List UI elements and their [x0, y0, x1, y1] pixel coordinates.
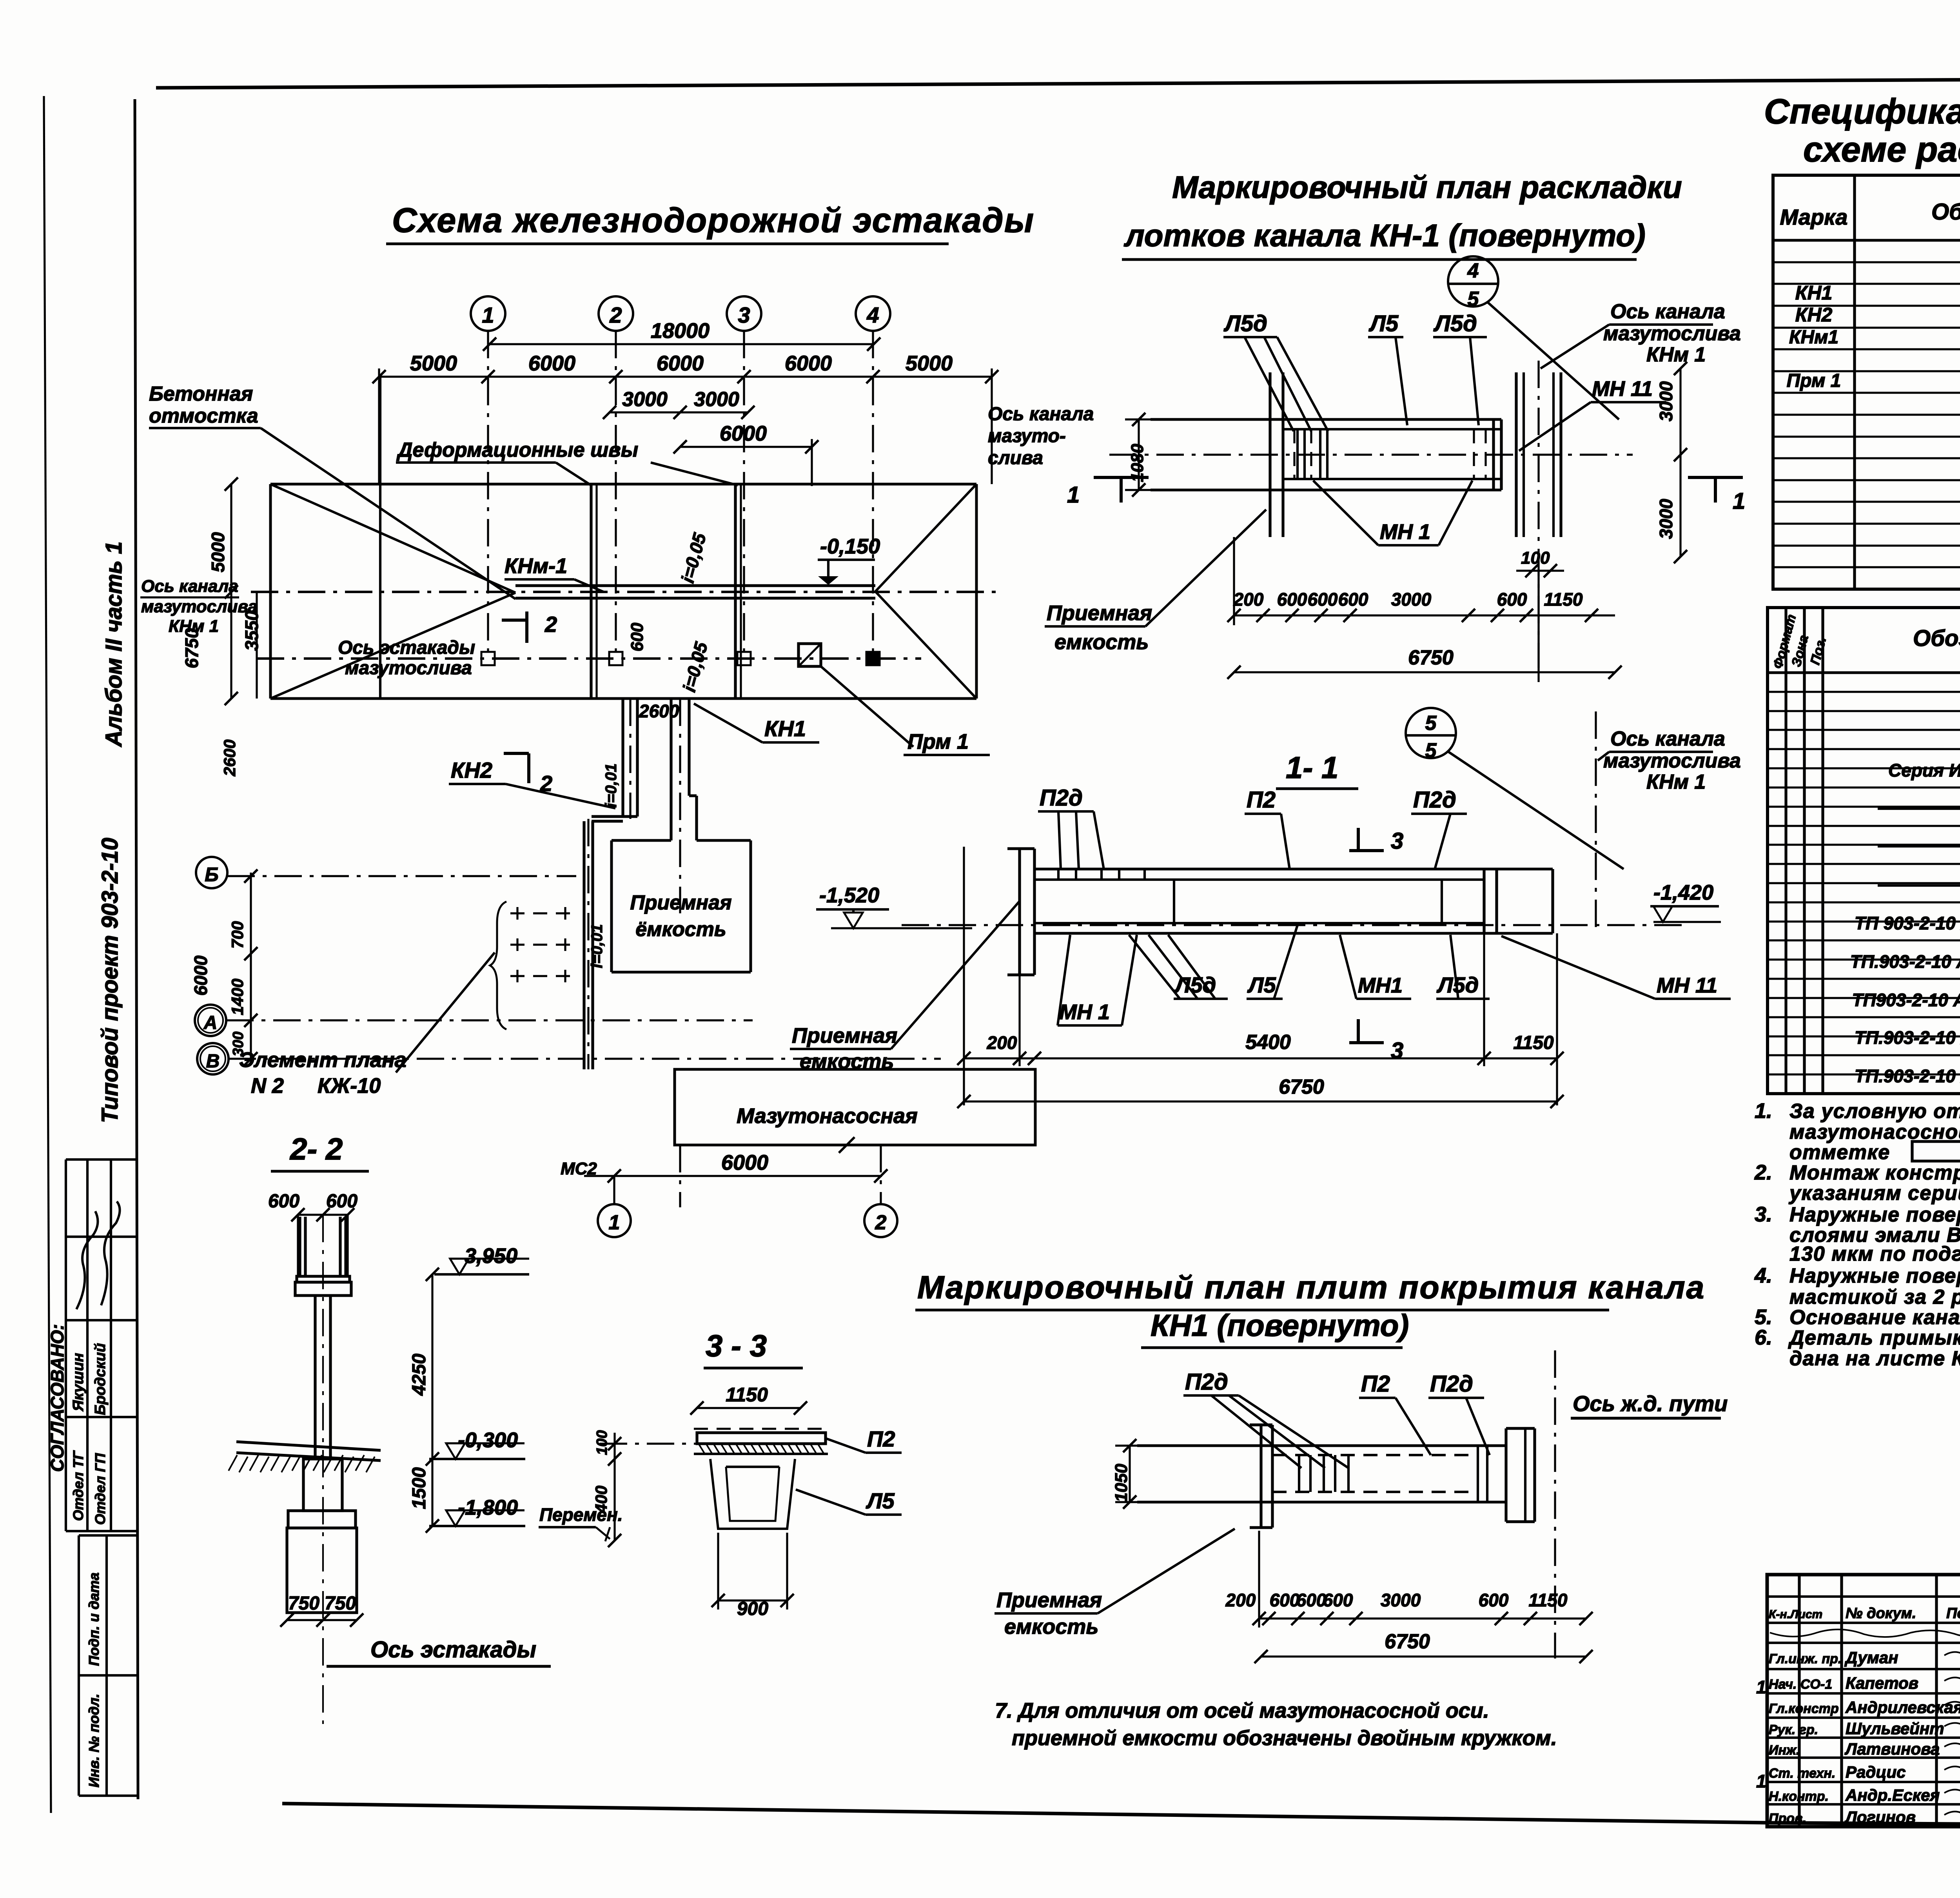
apron diagonals right [875, 484, 976, 592]
horizontal canal axis [1109, 454, 1633, 455]
title block left columns [1798, 1575, 1800, 1827]
svg-text:600: 600 [1479, 1590, 1509, 1610]
svg-text:№ докум.: № докум. [1846, 1605, 1916, 1622]
grid axis lines [487, 331, 489, 659]
svg-text:1150: 1150 [726, 1384, 768, 1406]
section mark 3 upper [1357, 828, 1360, 851]
left vertical dim line [250, 873, 252, 1059]
datum axis 1-1 [902, 924, 1686, 926]
svg-text:мазуто-: мазуто- [988, 426, 1066, 446]
svg-text:3: 3 [738, 303, 750, 327]
svg-text:мазутослива: мазутослива [141, 597, 258, 616]
svg-text:1080: 1080 [1128, 444, 1147, 482]
svg-text:П2: П2 [1247, 787, 1276, 813]
svg-text:Схема железнодорожной эстакады: Схема железнодорожной эстакады [392, 201, 1034, 240]
svg-text:Отдел ТГ: Отдел ТГ [70, 1450, 86, 1521]
svg-text:3000: 3000 [1391, 589, 1432, 610]
svg-text:3,950: 3,950 [465, 1244, 517, 1268]
2-2 footing [288, 1511, 356, 1528]
svg-text:емкость: емкость [1054, 630, 1149, 654]
svg-text:Марка: Марка [1780, 205, 1848, 229]
section mark 3 lower [1357, 1019, 1360, 1043]
svg-text:5400: 5400 [1245, 1031, 1291, 1054]
grid circle 1 lower [598, 1204, 631, 1237]
svg-text:КНм-1: КНм-1 [505, 554, 567, 578]
svg-text:Приемная: Приемная [996, 1588, 1102, 1612]
svg-text:-1,420: -1,420 [1653, 881, 1713, 904]
svg-text:Типовой проект 903-2-10: Типовой проект 903-2-10 [97, 838, 123, 1123]
svg-text:Маркировочный план раскладки: Маркировочный план раскладки [1172, 170, 1682, 205]
svg-text:Подп.: Подп. [1946, 1605, 1960, 1622]
svg-text:5: 5 [1425, 739, 1437, 762]
title block outline [1767, 1575, 1960, 1827]
svg-text:Обозначение: Обозначение [1913, 626, 1960, 651]
svg-text:ёмкость: ёмкость [635, 918, 726, 941]
svg-text:В: В [206, 1051, 220, 1072]
svg-text:Ось эстакады: Ось эстакады [370, 1637, 536, 1662]
plate joints on top left [1057, 869, 1060, 880]
svg-text:мазутослива: мазутослива [1603, 322, 1741, 345]
svg-text:3000: 3000 [1656, 499, 1676, 539]
sidebar lower table [79, 1534, 137, 1537]
svg-text:Подп. и дата: Подп. и дата [86, 1573, 102, 1666]
svg-text:КНм 1: КНм 1 [1646, 771, 1706, 793]
svg-text:200: 200 [987, 1032, 1017, 1053]
svg-text:Пров.: Пров. [1769, 1811, 1806, 1826]
svg-text:Альбом II часть 1: Альбом II часть 1 [101, 541, 127, 748]
svg-text:2: 2 [875, 1211, 887, 1234]
svg-text:600: 600 [1323, 1590, 1353, 1610]
svg-text:130 мкм по подгр. II допол: 130 мкм по подгр. II дополн. СНиП II- 28… [1789, 1243, 1960, 1265]
svg-text:5000: 5000 [410, 352, 457, 375]
svg-text:6750: 6750 [1279, 1076, 1324, 1098]
svg-text:ТП903-2-10 Ал.II ч.2 КЖИ-МН1: ТП903-2-10 Ал.II ч.2 КЖИ-МН13 [1852, 990, 1960, 1010]
svg-text:600: 600 [1338, 589, 1368, 610]
svg-text:2600: 2600 [220, 740, 239, 777]
svg-text:-0,150: -0,150 [820, 535, 880, 558]
svg-text:отметке: отметке [1789, 1141, 1890, 1164]
svg-text:Деталь примыкания канала КН: Деталь примыкания канала КН1 к каналам м… [1788, 1326, 1960, 1349]
svg-text:МС2: МС2 [561, 1159, 597, 1178]
svg-text:мазутослива: мазутослива [1603, 749, 1741, 772]
svg-text:Латвинова: Латвинова [1844, 1740, 1940, 1758]
svg-text:600: 600 [628, 622, 647, 651]
svg-text:П2д: П2д [1040, 785, 1083, 811]
svg-text:4.: 4. [1754, 1264, 1772, 1287]
svg-text:КНм1: КНм1 [1789, 327, 1838, 348]
svg-text:СОГЛАСОВАНО:: СОГЛАСОВАНО: [47, 1324, 67, 1472]
svg-text:дана на листе КЖ-5.: дана на листе КЖ-5. [1789, 1347, 1960, 1370]
grid circle 1 [471, 296, 505, 331]
svg-text:Наружные поверхности закладн: Наружные поверхности закладных деталей п… [1789, 1203, 1960, 1226]
dims below 1-1 [964, 1057, 1557, 1059]
svg-text:лотков канала КН-1 (повернуто): лотков канала КН-1 (повернуто) [1123, 218, 1646, 253]
svg-text:КН1: КН1 [764, 716, 806, 741]
svg-text:6.: 6. [1755, 1326, 1772, 1349]
svg-text:Элемент плана: Элемент плана [239, 1048, 407, 1072]
svg-text:1.: 1. [1755, 1099, 1772, 1123]
svg-text:Гл.инж. пр.: Гл.инж. пр. [1769, 1651, 1842, 1666]
svg-text:указаниям серии ИС-01-04: указаниям серии ИС-01-04 в.1 [1788, 1182, 1960, 1205]
callout circle 5/5 [1406, 708, 1456, 758]
svg-text:МН1: МН1 [1358, 974, 1403, 997]
svg-text:Спецификация элементов к ма: Спецификация элементов к маркировочной [1764, 92, 1960, 131]
svg-text:750: 750 [288, 1593, 319, 1614]
deformation joint lines [590, 484, 592, 699]
axis KNm1 vertical near 1-1 [1595, 711, 1597, 931]
svg-text:3000: 3000 [1381, 1590, 1421, 1610]
svg-text:П2: П2 [1361, 1371, 1390, 1397]
svg-text:Л5: Л5 [866, 1488, 895, 1513]
svg-text:750: 750 [325, 1593, 356, 1614]
right end wall 1-1 [1483, 869, 1485, 933]
svg-text:Наружные поверхности стен кан: Наружные поверхности стен канала покрыть… [1789, 1265, 1960, 1287]
svg-text:-1,520: -1,520 [819, 884, 879, 907]
svg-text:Инж.: Инж. [1769, 1743, 1800, 1758]
svg-text:Ось канала: Ось канала [1610, 728, 1725, 750]
trestle slab outline [270, 483, 976, 486]
svg-text:Ось канала: Ось канала [141, 577, 238, 596]
canal KN1 vertical [670, 699, 672, 840]
svg-text:i=0,01: i=0,01 [588, 924, 606, 968]
svg-text:КН2: КН2 [451, 758, 492, 782]
svg-text:КЖ-10: КЖ-10 [318, 1074, 381, 1098]
svg-text:П2д: П2д [1185, 1369, 1228, 1395]
svg-text:МН 11: МН 11 [1592, 377, 1653, 401]
svg-text:Прм 1: Прм 1 [1787, 370, 1841, 391]
svg-text:5.: 5. [1755, 1305, 1772, 1329]
svg-text:Приемная: Приемная [630, 891, 731, 914]
svg-text:6750: 6750 [1408, 646, 1454, 669]
svg-text:200: 200 [1225, 1590, 1256, 1610]
svg-text:100: 100 [594, 1430, 610, 1455]
svg-text:-1,800: -1,800 [458, 1496, 518, 1519]
crossing canal KNm1 block [1515, 372, 1517, 537]
svg-text:МН 1: МН 1 [1380, 520, 1430, 544]
right vertical dim 3000/3000 [1679, 368, 1681, 557]
3-3 cover plate [697, 1433, 826, 1444]
svg-text:отмостка: отмостка [149, 405, 258, 427]
svg-text:200: 200 [1233, 589, 1264, 610]
sheet edge line [44, 96, 51, 1813]
trough plan outline [1151, 418, 1501, 421]
plate joint lines [1296, 429, 1299, 479]
svg-text:3: 3 [1391, 1038, 1403, 1063]
svg-text:6000: 6000 [785, 352, 832, 375]
svg-text:П2д: П2д [1430, 1371, 1473, 1397]
svg-text:Ст. техн.: Ст. техн. [1769, 1766, 1835, 1781]
svg-text:600: 600 [1277, 589, 1307, 610]
svg-text:Серия ИС-01-04 Вып.2: Серия ИС-01-04 Вып.2 [1888, 760, 1960, 780]
svg-text:КНм 1: КНм 1 [1646, 343, 1706, 366]
dim 18000 [490, 343, 874, 345]
svg-text:2- 2: 2- 2 [289, 1132, 343, 1166]
svg-text:Обозначение: Обозначение [1931, 199, 1960, 225]
svg-text:-0,300: -0,300 [458, 1428, 518, 1452]
svg-text:900: 900 [737, 1599, 768, 1619]
svg-text:Капетов: Капетов [1846, 1674, 1918, 1692]
svg-text:700: 700 [228, 921, 247, 949]
sidebar signatures [76, 1211, 98, 1309]
svg-text:емкость: емкость [1004, 1615, 1098, 1639]
svg-text:6000: 6000 [720, 422, 767, 445]
svg-text:2: 2 [609, 303, 622, 327]
svg-text:600: 600 [268, 1191, 299, 1212]
svg-text:КН1: КН1 [1795, 282, 1833, 304]
svg-text:6000: 6000 [657, 352, 704, 375]
svg-text:Андр.Ескея: Андр.Ескея [1845, 1786, 1940, 1804]
svg-text:2600: 2600 [639, 701, 679, 721]
svg-text:1150: 1150 [1513, 1032, 1554, 1053]
svg-text:Прм 1: Прм 1 [907, 730, 969, 753]
mazutonasosnaya room [675, 1069, 1035, 1145]
trough section outline [1034, 868, 1553, 871]
grid circle A [195, 1005, 226, 1036]
svg-text:П2: П2 [867, 1426, 895, 1451]
callout circle 4/5 [1448, 256, 1498, 307]
column squares on axis [481, 652, 495, 665]
note1 empty box [1912, 1141, 1960, 1161]
svg-text:3000: 3000 [694, 388, 739, 411]
section mark 1 right [1688, 476, 1743, 479]
spec table A grid [1773, 175, 1960, 589]
svg-text:КН1 (повернуто): КН1 (повернуто) [1151, 1308, 1409, 1343]
svg-text:6750: 6750 [1385, 1630, 1430, 1653]
section mark 2 lower [504, 752, 529, 755]
svg-text:1: 1 [1067, 482, 1080, 508]
svg-text:МН 11: МН 11 [1657, 974, 1717, 997]
svg-text:Рук. гр.: Рук. гр. [1769, 1722, 1818, 1737]
svg-text:1- 1: 1- 1 [1286, 750, 1338, 785]
3-3 vertical dims [613, 1433, 615, 1541]
svg-text:5: 5 [1468, 288, 1479, 310]
svg-text:3: 3 [1391, 828, 1403, 854]
grid circle 2 lower [864, 1204, 897, 1237]
svg-text:i=0,01: i=0,01 [603, 764, 620, 807]
svg-text:600: 600 [1270, 1590, 1300, 1610]
svg-text:Деформационные швы: Деформационные швы [396, 439, 638, 461]
dim row bottom drawing [1259, 1617, 1586, 1619]
svg-text:1: 1 [1756, 1771, 1766, 1791]
svg-text:Андрилевская: Андрилевская [1845, 1698, 1960, 1717]
svg-text:6000: 6000 [191, 955, 211, 996]
trough plan outline bottom [1137, 1444, 1506, 1447]
svg-text:Бродский: Бродский [92, 1343, 109, 1415]
svg-text:7. Для отличия от осей маз: 7. Для отличия от осей мазутонасосной ос… [995, 1699, 1489, 1722]
svg-text:100: 100 [1521, 548, 1550, 568]
svg-text:емкость: емкость [800, 1050, 894, 1073]
vertical axis bottom [1554, 1350, 1556, 1658]
svg-text:Б: Б [205, 864, 218, 885]
svg-text:600: 600 [1308, 589, 1338, 610]
grid circle B (Б) [196, 857, 227, 888]
spec table B grid [1768, 608, 1960, 1094]
svg-text:600: 600 [1296, 1590, 1327, 1610]
2-2 pedestal [303, 1459, 342, 1511]
sheet border frame [156, 77, 1960, 88]
svg-text:Монтаж конструкций канала: Монтаж конструкций канала производить со… [1789, 1161, 1960, 1184]
svg-text:N 2: N 2 [251, 1074, 284, 1098]
grid circle 3 [727, 296, 761, 331]
svg-text:4: 4 [1467, 259, 1479, 282]
svg-text:1: 1 [482, 303, 494, 327]
svg-text:слива: слива [988, 448, 1043, 468]
svg-text:Н.контр.: Н.контр. [1769, 1789, 1829, 1804]
dim total 6750 bottom [1261, 1655, 1586, 1657]
ground hatch [229, 1455, 375, 1472]
svg-text:Бетонная: Бетонная [149, 383, 253, 405]
svg-text:схеме расположенной на лист: схеме расположенной на листе [1803, 130, 1960, 169]
svg-text:3000: 3000 [1656, 381, 1676, 421]
svg-text:ТП.903-2-10 Ал.II ч.2 КЖИ-МН1: ТП.903-2-10 Ал.II ч.2 КЖИ-МН11 [1850, 951, 1960, 972]
canal KNm-1 double line [515, 584, 875, 587]
svg-text:1400: 1400 [228, 979, 247, 1015]
svg-text:Ось эстакады: Ось эстакады [338, 637, 475, 658]
svg-text:Л5: Л5 [1247, 973, 1276, 997]
Prm1 pit square [799, 644, 821, 666]
svg-text:Основание каналов уплотнить: Основание каналов уплотнить щебнем. [1789, 1306, 1960, 1329]
svg-text:Л5: Л5 [1368, 311, 1399, 336]
svg-text:Приемная: Приемная [1047, 601, 1152, 625]
svg-text:Ось канала: Ось канала [988, 404, 1094, 425]
svg-text:мазутонасосной, что соответст: мазутонасосной, что соответствует абсолю… [1789, 1121, 1960, 1143]
svg-text:МН 1: МН 1 [1059, 1000, 1110, 1024]
plate joints bottom [1298, 1455, 1300, 1492]
svg-text:3000: 3000 [622, 388, 668, 411]
svg-text:Радцис: Радцис [1846, 1763, 1906, 1781]
grid circle V (В) [197, 1043, 229, 1074]
sidebar approval table [66, 1158, 137, 1161]
svg-text:Л5д: Л5д [1433, 311, 1477, 336]
svg-text:Гл.констр: Гл.констр [1769, 1701, 1839, 1716]
canal KN2 vertical [621, 699, 624, 817]
svg-text:Нач. СО-1: Нач. СО-1 [1769, 1677, 1832, 1692]
section mark 2 upper [502, 619, 527, 622]
svg-text:5000: 5000 [208, 532, 228, 572]
svg-text:3 - 3: 3 - 3 [706, 1328, 767, 1363]
svg-text:2: 2 [544, 612, 557, 637]
svg-text:2.: 2. [1754, 1161, 1772, 1184]
2-2 cap plates [297, 1276, 350, 1282]
svg-text:Отдел ГП: Отдел ГП [92, 1453, 108, 1525]
dim total 6750 [1234, 671, 1615, 673]
3-3 tray L5 trapezoid [710, 1459, 795, 1529]
svg-text:1: 1 [609, 1211, 620, 1234]
2-2 ground slab [236, 1442, 381, 1450]
svg-text:Мазутонасосная: Мазутонасосная [737, 1104, 918, 1128]
svg-text:1150: 1150 [1544, 589, 1583, 610]
svg-text:Шульвейнт: Шульвейнт [1846, 1719, 1944, 1738]
dim 6000 mazutonasosnaya [584, 1175, 882, 1177]
svg-text:5: 5 [1425, 712, 1437, 735]
svg-text:6000: 6000 [721, 1151, 768, 1174]
svg-text:400: 400 [592, 1486, 610, 1513]
2-2 vertical dim [431, 1274, 433, 1526]
dim total 6750 1-1 [964, 1100, 1557, 1102]
plan left vertical dims [230, 484, 232, 699]
svg-text:Логинов: Логинов [1844, 1808, 1916, 1826]
element bracket with MC dashed lines [490, 902, 506, 1029]
svg-text:ТП 903-2-10 Ал.II ч.2 КЖИ-МН1: ТП 903-2-10 Ал.II ч.2 КЖИ-МН1 [1855, 913, 1960, 933]
svg-text:4: 4 [866, 303, 879, 327]
2-2 rails [298, 1217, 301, 1276]
right end block bottom [1506, 1427, 1535, 1430]
svg-text:Якушин: Якушин [70, 1353, 87, 1412]
svg-text:А: А [203, 1013, 218, 1033]
svg-text:600: 600 [1497, 589, 1527, 610]
grid circle 2 [599, 296, 633, 331]
dim 3000 3000 [610, 411, 748, 413]
svg-text:1050: 1050 [1112, 1464, 1131, 1502]
grid circle 4 [856, 296, 890, 331]
svg-text:6000: 6000 [528, 352, 575, 375]
2-2 column [314, 1296, 316, 1459]
svg-text:П2д: П2д [1413, 787, 1456, 813]
receiving tank wall [1269, 372, 1271, 537]
svg-text:1150: 1150 [1529, 1590, 1568, 1610]
svg-text:Инв. № подл.: Инв. № подл. [86, 1694, 102, 1787]
svg-text:К-н.Лист: К-н.Лист [1769, 1608, 1822, 1621]
svg-text:18000: 18000 [651, 319, 710, 343]
dim 6000 mid [680, 446, 812, 448]
right end wall [1492, 419, 1495, 490]
dim 900 [718, 1599, 787, 1601]
svg-text:ТП.903-2-10 Ал.II ч.2 КЖИ-МС: ТП.903-2-10 Ал.II ч.2 КЖИ-МС1 [1855, 1027, 1960, 1048]
svg-text:ТП.903-2-10 Ал.II ч.2 КЖИ-МС: ТП.903-2-10 Ал.II ч.2 КЖИ-МС2 [1855, 1066, 1960, 1086]
svg-text:Ось ж.д. пути: Ось ж.д. пути [1573, 1391, 1728, 1416]
vertical axis KNm1 top [1537, 361, 1539, 668]
apron diagonals left [270, 484, 515, 593]
svg-text:6750: 6750 [181, 628, 202, 668]
svg-text:Маркировочный план плит покрыт: Маркировочный план плит покрытия канала [917, 1270, 1705, 1305]
svg-text:КН2: КН2 [1795, 304, 1833, 326]
svg-text:4250: 4250 [409, 1354, 430, 1396]
svg-text:Ось канала: Ось канала [1610, 300, 1725, 323]
svg-text:3.: 3. [1755, 1203, 1772, 1226]
svg-text:3550: 3550 [241, 610, 262, 651]
dim row 5000/6000/6000/6000/5000 [379, 376, 992, 377]
tank wall left section [1018, 849, 1021, 975]
svg-text:5000: 5000 [906, 352, 953, 375]
svg-text:Думан: Думан [1844, 1648, 1898, 1667]
trestle axis (os estakady) [257, 657, 921, 660]
dim row bottom [1234, 614, 1615, 616]
hidden MN lines dashed [1293, 429, 1295, 479]
svg-text:мастикой за 2 раза по холо: мастикой за 2 раза по холодной битумной … [1789, 1286, 1960, 1308]
svg-text:1500: 1500 [409, 1467, 430, 1509]
svg-text:Приемная: Приемная [792, 1024, 897, 1047]
title block left rows [1767, 1595, 1960, 1598]
tank wall bottom drawing [1259, 1425, 1262, 1528]
canal axis KNm1 [251, 591, 998, 593]
receiving tank plan [612, 839, 671, 842]
svg-text:приемной емкости обозначены: приемной емкости обозначены двойным круж… [1012, 1726, 1557, 1750]
svg-text:1: 1 [1733, 488, 1745, 514]
svg-text:1: 1 [1756, 1677, 1766, 1697]
svg-text:мазутослива: мазутослива [345, 658, 472, 679]
svg-text:Л5д: Л5д [1223, 311, 1267, 336]
svg-text:За условную отметку 0,000 пр: За условную отметку 0,000 принят уровень… [1789, 1100, 1960, 1123]
